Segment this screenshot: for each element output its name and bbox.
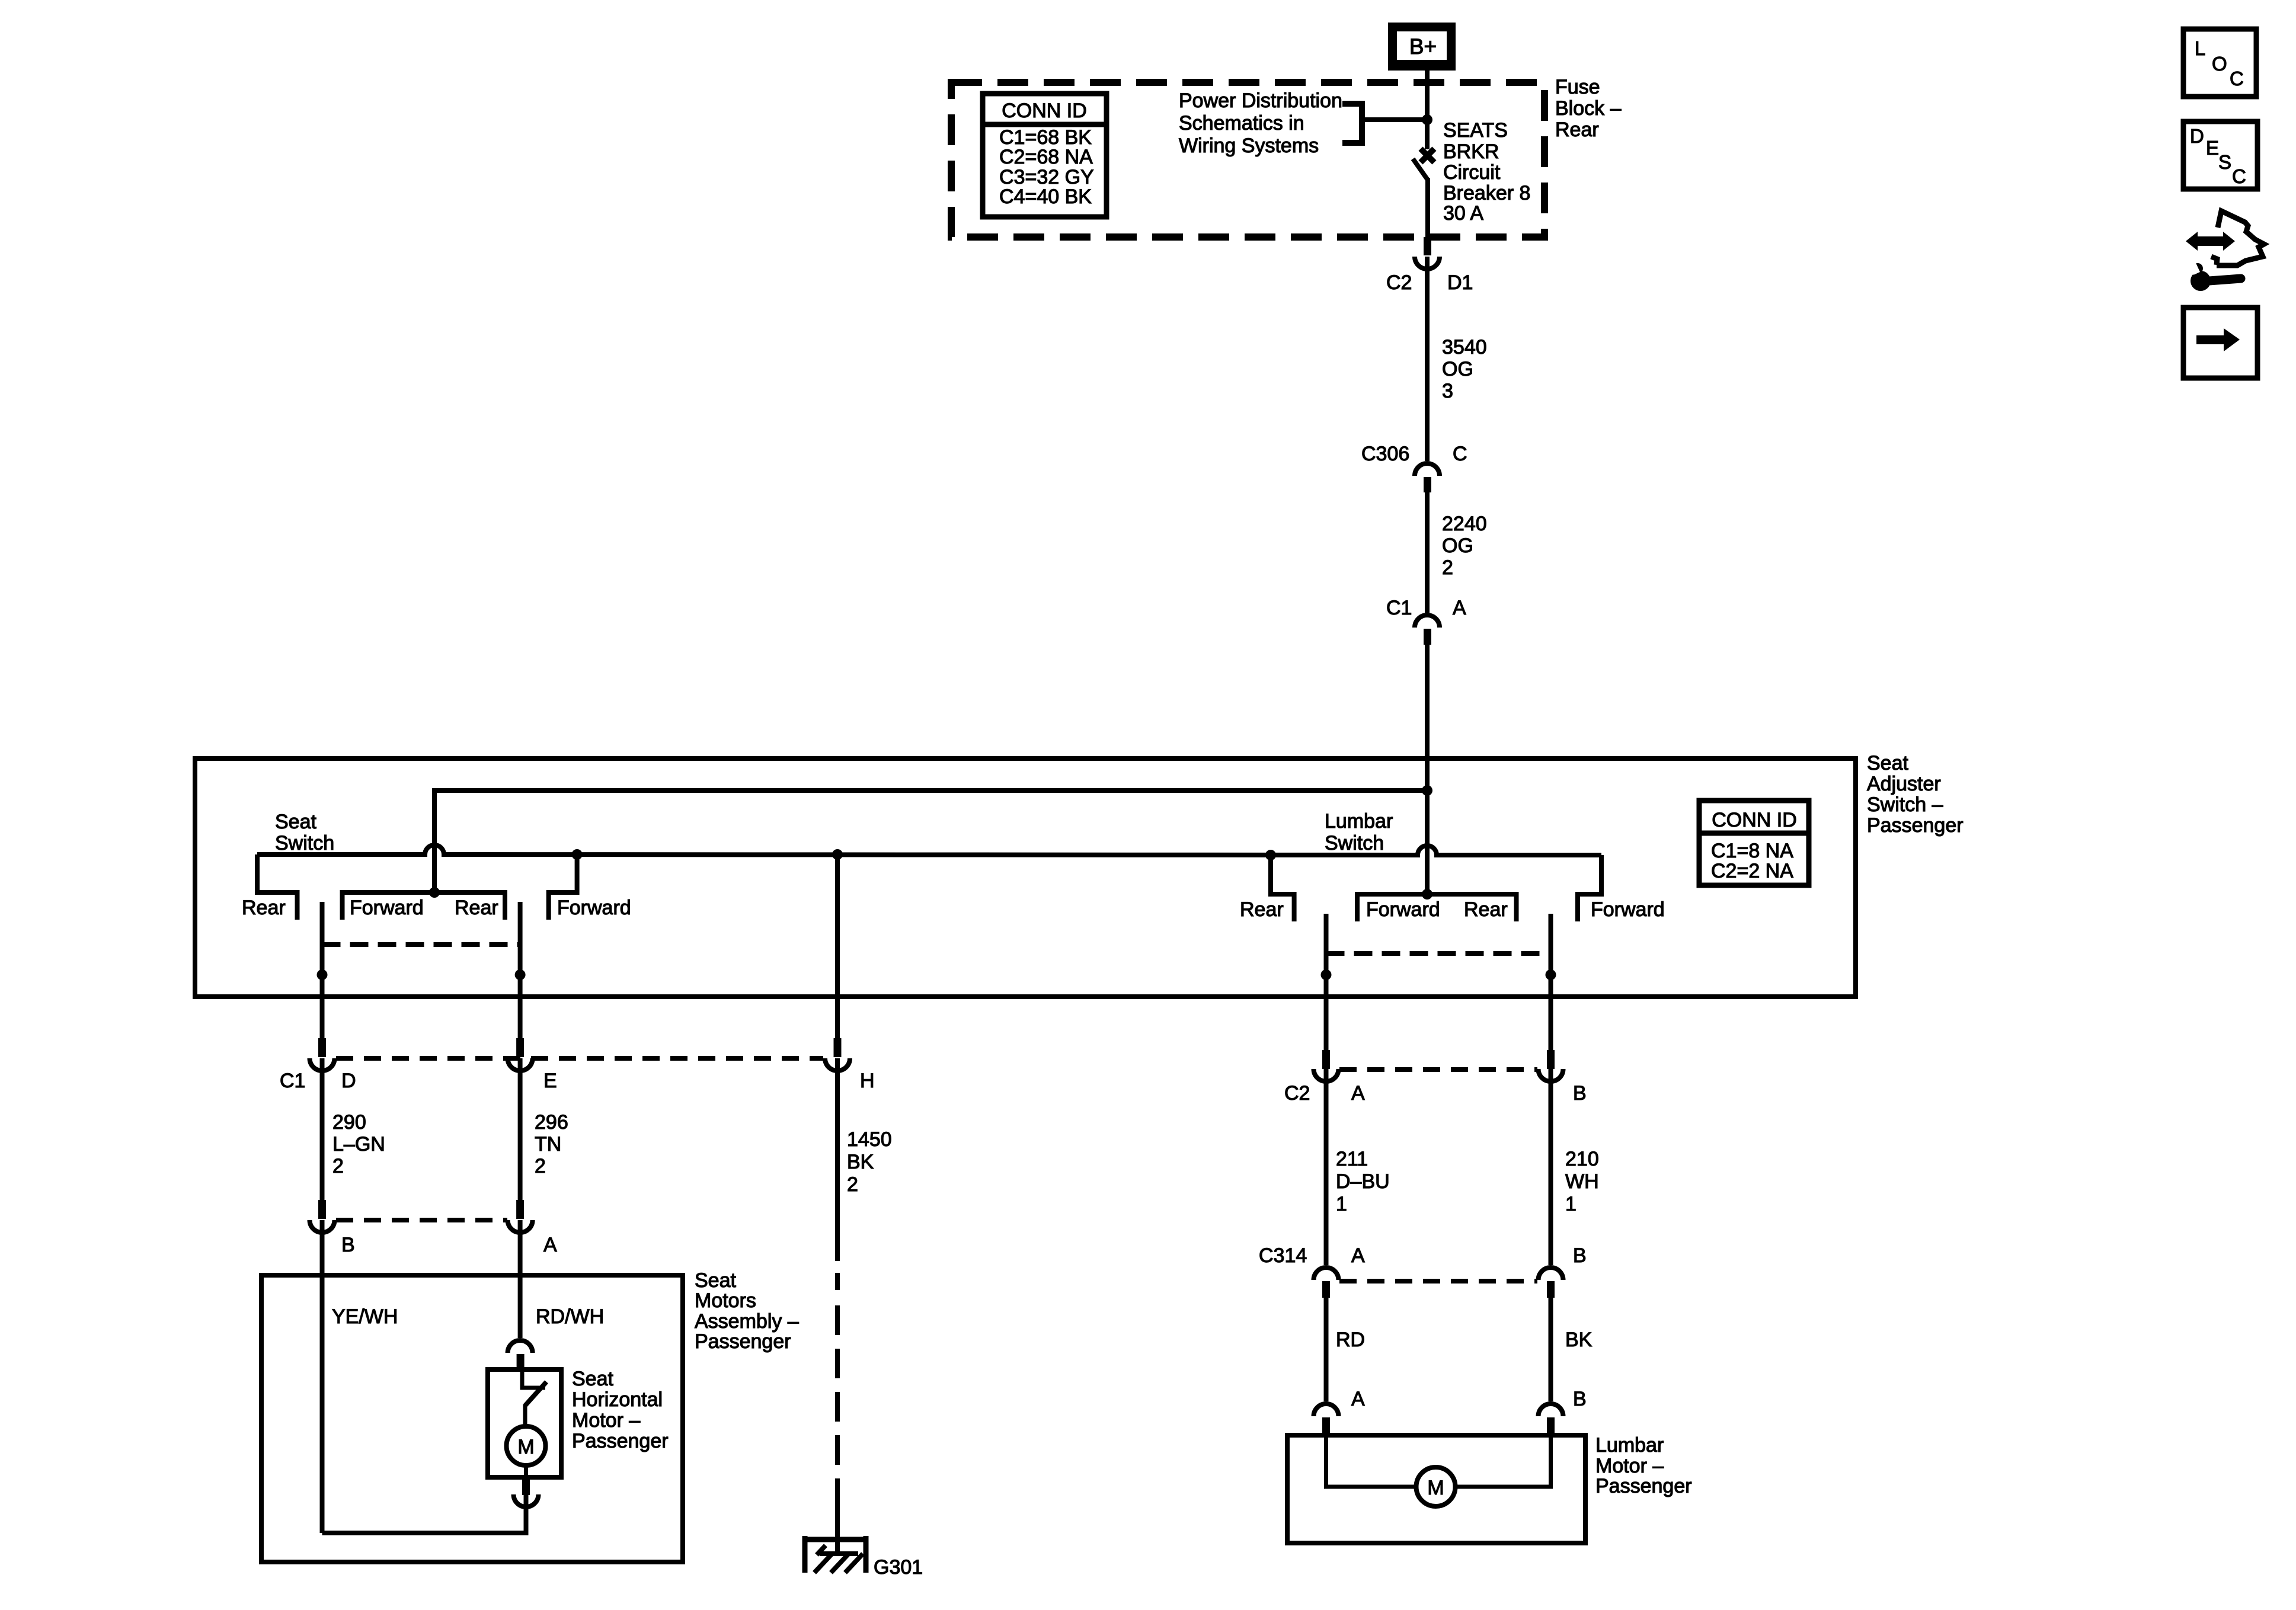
svg-text:Adjuster: Adjuster [1867,773,1941,795]
svg-text:Rear: Rear [1240,898,1284,921]
svg-text:OG: OG [1442,358,1473,380]
connector C2/D1 pin [1424,237,1431,255]
wire lumbar forward/rear bracket [1357,894,1517,921]
label Seat Horizontal Motor - Passenger [572,1368,669,1452]
svg-text:2: 2 [847,1173,858,1196]
CONN ID table (fuse block) [983,94,1107,217]
wire return to YE/WH leg [322,1494,526,1533]
svg-text:G301: G301 [874,1556,923,1579]
svg-text:A: A [1351,1388,1365,1410]
svg-text:1: 1 [1336,1193,1347,1215]
svg-text:OG: OG [1442,534,1473,557]
lumbar motor M circle [1416,1467,1456,1506]
wire motor bottom [524,1465,528,1477]
wire H from bus down [835,854,840,1038]
svg-text:Wiring Systems: Wiring Systems [1179,135,1319,157]
svg-text:C2: C2 [1284,1082,1310,1105]
mechanical link dashed seat [322,942,520,947]
svg-text:O: O [2212,53,2227,75]
wire seat forward/rear bracket [343,892,506,920]
connector cup motor bottom [514,1494,539,1507]
fuse block dashed outline [951,82,1544,237]
wire seat forward contact [549,854,577,920]
connector pin A lumbar motor [1322,1417,1330,1435]
junction dot lumbar bracket [1422,889,1432,900]
motor internal limit switch [522,1369,545,1388]
connector C2 cup A [1314,1069,1339,1081]
svg-text:B: B [341,1234,355,1256]
svg-text:L–GN: L–GN [332,1133,385,1156]
svg-text:E: E [2206,137,2219,159]
svg-text:RD: RD [1336,1329,1365,1351]
svg-text:2: 2 [535,1155,546,1177]
connector C306/C pin [1424,477,1431,492]
svg-text:WH: WH [1565,1170,1599,1193]
svg-text:3540: 3540 [1442,336,1487,359]
ground G301 [803,1536,868,1573]
svg-text:Seat: Seat [695,1269,736,1292]
svg-text:C1: C1 [280,1070,305,1092]
wire seat wiper forward pole [518,902,523,1038]
junction dot seat wiper right [515,969,526,980]
label Seat Adjuster Switch - Passenger [1867,752,1964,837]
svg-text:CONN ID: CONN ID [1002,100,1087,122]
svg-text:L: L [2195,37,2205,59]
svg-text:YE/WH: YE/WH [332,1305,398,1328]
svg-text:Seat: Seat [1867,752,1908,774]
wire seat wiper rear pole [320,902,325,1038]
connector pin B [318,1200,326,1219]
label wire 2240 OG 2 [1442,513,1487,579]
svg-text:Forward: Forward [1366,898,1440,921]
label wire 296 TN 2 [535,1111,568,1177]
svg-text:Seat: Seat [572,1368,613,1390]
label wire 211 D-BU 1 [1336,1148,1390,1215]
connector C2/D1 cup [1415,257,1440,269]
connector C2 pin B [1547,1050,1555,1069]
svg-text:Passenger: Passenger [1867,814,1964,837]
svg-text:Switch –: Switch – [1867,793,1943,816]
connector cup B [310,1220,335,1233]
connector pin A [516,1200,524,1219]
lumbar motor box [1287,1435,1585,1543]
svg-text:Passenger: Passenger [695,1330,791,1353]
wire seat rear contact [257,854,298,920]
wire B+ down to junction [1425,71,1430,122]
label Lumbar Switch [1325,810,1393,854]
icon next arrow box [2183,308,2257,378]
label wire 3540 OG 3 [1442,336,1487,402]
seat horizontal motor box [488,1369,561,1477]
junction dot bus at seat forward [572,849,583,860]
label Power Distribution Schematics in Wiring Systems [1179,89,1342,157]
svg-text:Rear: Rear [1555,119,1599,141]
svg-text:Switch: Switch [275,832,334,854]
wire H dashed section [835,1273,840,1515]
svg-text:C: C [2230,68,2244,89]
svg-text:BRKR: BRKR [1443,140,1499,163]
dashed connector line C1 [336,1056,823,1061]
connector C314 cup A [1314,1267,1339,1280]
motor M circle [507,1426,546,1465]
junction dot bus at H wire [832,849,843,860]
svg-text:B: B [1573,1388,1587,1410]
wire lumbar wiper rear pole [1324,914,1329,1050]
svg-text:Rear: Rear [1464,898,1508,921]
CONN ID table (switch) [1699,801,1809,885]
reference bracket to Power Distribution [1342,104,1362,143]
wire feed down to lumbar contact [1425,790,1430,894]
svg-text:S: S [2218,151,2231,173]
svg-text:Circuit: Circuit [1443,161,1501,184]
label Lumbar Motor - Passenger [1595,1434,1692,1497]
connector C1 cup D [310,1058,335,1071]
connector C1/A cup [1415,615,1440,628]
svg-text:C314: C314 [1259,1244,1307,1267]
wire D to B [320,1058,325,1200]
svg-text:Motor –: Motor – [1595,1455,1664,1477]
mechanical link dashed lumbar [1326,951,1551,956]
junction dot seat bracket [429,887,440,898]
svg-text:Forward: Forward [350,897,424,919]
svg-text:M: M [1427,1477,1444,1499]
wire A to C314 [1324,1069,1329,1265]
label Seat Switch [275,811,334,854]
svg-text:C306: C306 [1361,443,1409,465]
svg-text:Block –: Block – [1555,97,1622,120]
svg-text:Schematics in: Schematics in [1179,112,1304,135]
label wire 1450 BK 2 [847,1128,892,1196]
svg-text:A: A [1351,1244,1365,1267]
svg-text:C: C [2232,165,2246,187]
connector pin motor bottom [522,1477,530,1495]
dashed connector line C314 [1339,1279,1537,1283]
svg-text:D: D [2190,125,2204,147]
svg-text:C1=8 NA: C1=8 NA [1711,840,1793,862]
svg-text:A: A [1351,1082,1365,1105]
connector C314 pin A [1322,1281,1330,1298]
junction dot feed top [1422,785,1432,796]
svg-text:C2: C2 [1386,271,1412,294]
svg-text:Breaker 8: Breaker 8 [1443,182,1530,204]
wire C306 to C1/A [1425,492,1430,613]
icon DESC box [2183,121,2257,189]
svg-text:Rear: Rear [242,897,286,919]
svg-text:D: D [341,1070,356,1092]
connector cup A [508,1220,533,1233]
svg-text:RD/WH: RD/WH [536,1305,604,1328]
wire B to C314 [1549,1069,1553,1265]
label SEATS BRKR Circuit Breaker 8 30 A [1443,119,1530,225]
svg-text:C4=40 BK: C4=40 BK [999,185,1092,208]
svg-text:1: 1 [1565,1193,1576,1215]
svg-text:2: 2 [332,1155,344,1177]
connector C1 cup H [825,1058,850,1071]
svg-text:B+: B+ [1409,34,1437,59]
icon adjust: wrench [2188,258,2241,291]
svg-text:C2=2 NA: C2=2 NA [1711,860,1793,882]
wire lumbar rear contact [1271,855,1294,921]
svg-text:296: 296 [535,1111,568,1134]
junction dot bus at lumbar rear [1265,850,1276,860]
svg-text:H: H [860,1070,875,1092]
svg-text:Motor –: Motor – [572,1409,640,1432]
circuit breaker SEATS BRKR 30A [1413,120,1434,237]
connector C1/A pin [1424,629,1431,645]
svg-text:290: 290 [332,1111,366,1134]
svg-text:C2=68 NA: C2=68 NA [999,146,1093,168]
svg-text:BK: BK [1565,1329,1593,1351]
wire C314 A down [1324,1298,1329,1401]
svg-text:C1: C1 [1386,597,1412,619]
svg-text:TN: TN [535,1133,561,1156]
wire bracket to main feed [1362,117,1427,122]
svg-text:2: 2 [1442,556,1453,579]
label Seat Motors Assembly - Passenger [695,1269,799,1353]
svg-text:E: E [543,1070,557,1092]
svg-text:Rear: Rear [455,897,498,919]
svg-text:C: C [1453,443,1467,465]
wire C1/A down into switch box [1425,645,1430,793]
wire lumbar forward contact [1578,855,1601,921]
wire lumbar motor right leg [1455,1435,1551,1487]
svg-text:Seat: Seat [275,811,316,833]
connector C2 cup B [1539,1069,1563,1081]
svg-text:211: 211 [1336,1148,1368,1170]
svg-text:Forward: Forward [557,897,631,919]
connector cup at motor top [508,1340,533,1353]
svg-text:M: M [517,1436,534,1458]
connector cup B lumbar motor [1539,1404,1563,1416]
connector C1 pin E [516,1038,524,1057]
wire C314 B down [1549,1298,1553,1401]
connector C1 pin D [318,1038,326,1057]
svg-text:Lumbar: Lumbar [1595,1434,1664,1457]
label wire 290 L-GN 2 [332,1111,385,1177]
svg-text:D1: D1 [1447,271,1473,294]
svg-text:Lumbar: Lumbar [1325,810,1393,833]
wire B down into motors box [320,1220,325,1533]
svg-text:210: 210 [1565,1148,1599,1170]
svg-text:3: 3 [1442,380,1453,402]
connector C314 pin B [1547,1281,1555,1298]
icon adjust: component outline [2217,211,2264,265]
svg-text:Power Distribution: Power Distribution [1179,89,1342,112]
wire H into ground [835,1505,840,1554]
wire top inner feed across box [434,790,1427,892]
junction dot lumbar wiper right [1546,969,1556,980]
svg-text:CONN ID: CONN ID [1712,809,1797,831]
svg-text:A: A [543,1234,557,1256]
icon adjust: double arrow [2186,232,2235,251]
seat adjuster switch box outline [195,758,1856,997]
connector C306/C cup [1415,463,1440,476]
svg-text:30 A: 30 A [1443,202,1483,225]
junction dot seat wiper left [317,969,328,980]
connector pin B lumbar motor [1547,1417,1555,1435]
svg-text:Forward: Forward [1591,898,1665,921]
wire H solid upper [835,1058,840,1261]
icon LOC box [2183,29,2256,97]
label wire 210 WH 1 [1565,1148,1599,1215]
svg-text:Passenger: Passenger [572,1430,669,1452]
connector C1 pin H [834,1038,842,1057]
svg-text:Passenger: Passenger [1595,1475,1692,1497]
svg-text:2240: 2240 [1442,513,1487,535]
connector C1 cup E [508,1058,533,1071]
wire A down to motor connector [518,1220,523,1338]
svg-text:BK: BK [847,1151,874,1173]
svg-text:A: A [1453,597,1466,619]
node B+ battery feed box [1388,23,1456,71]
svg-text:Horizontal: Horizontal [572,1388,663,1411]
connector C2 pin A [1322,1050,1330,1069]
svg-text:D–BU: D–BU [1336,1170,1390,1193]
svg-text:Fuse: Fuse [1555,76,1600,98]
dashed connector line C2 [1339,1067,1537,1072]
svg-text:Assembly –: Assembly – [695,1310,799,1333]
seat motors assembly box [261,1275,683,1562]
wire lumbar motor left leg [1326,1435,1417,1487]
connector pin at motor top [517,1354,525,1370]
connector C314 cup B [1539,1267,1563,1280]
svg-text:B: B [1573,1244,1587,1267]
svg-text:Motors: Motors [695,1289,756,1312]
junction dot at feed [1422,114,1432,125]
wire lumbar wiper forward pole [1549,914,1553,1050]
svg-text:B: B [1573,1082,1587,1105]
svg-text:1450: 1450 [847,1128,892,1151]
label Fuse Block - Rear [1555,76,1622,141]
svg-text:SEATS: SEATS [1443,119,1508,142]
svg-text:Switch: Switch [1325,832,1384,854]
wire switch bus with hops [257,845,1601,855]
wire E to A [518,1058,523,1200]
junction dot lumbar wiper left [1321,969,1332,980]
connector cup A lumbar motor [1314,1404,1339,1416]
dashed connector line B-A [336,1218,507,1222]
wire C2/D1 to C306 [1425,257,1430,461]
